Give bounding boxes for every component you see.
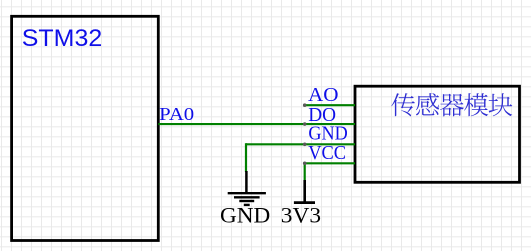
junction dot on AO wire [303, 103, 307, 107]
power symbol 3V3 bar [294, 180, 315, 203]
svg-text:PA0: PA0 [159, 104, 194, 124]
svg-text:GND: GND [220, 203, 270, 228]
wire VCC net horizontal [305, 162, 355, 164]
svg-text:GND: GND [308, 123, 347, 145]
wire PA0 net: STM32 PA0 to sensor DO [158, 123, 355, 125]
wire GND net horizontal [246, 143, 355, 145]
junction dot on DO wire [303, 122, 307, 126]
component U1 STM32 box [12, 16, 159, 240]
svg-text:3V3: 3V3 [281, 203, 321, 228]
junction dot on VCC wire corner [303, 162, 307, 166]
wire GND net vertical [245, 143, 247, 172]
svg-text:AO: AO [308, 84, 339, 106]
svg-text:VCC: VCC [308, 142, 346, 164]
svg-text:STM32: STM32 [22, 25, 102, 52]
label 传感器模块 [391, 93, 512, 116]
ground symbol GND [228, 171, 266, 205]
component U2 sensor module box [355, 86, 520, 182]
junction dot on GND wire [303, 143, 307, 147]
wire VCC net vertical [304, 162, 306, 181]
wire AO stub [305, 104, 355, 106]
